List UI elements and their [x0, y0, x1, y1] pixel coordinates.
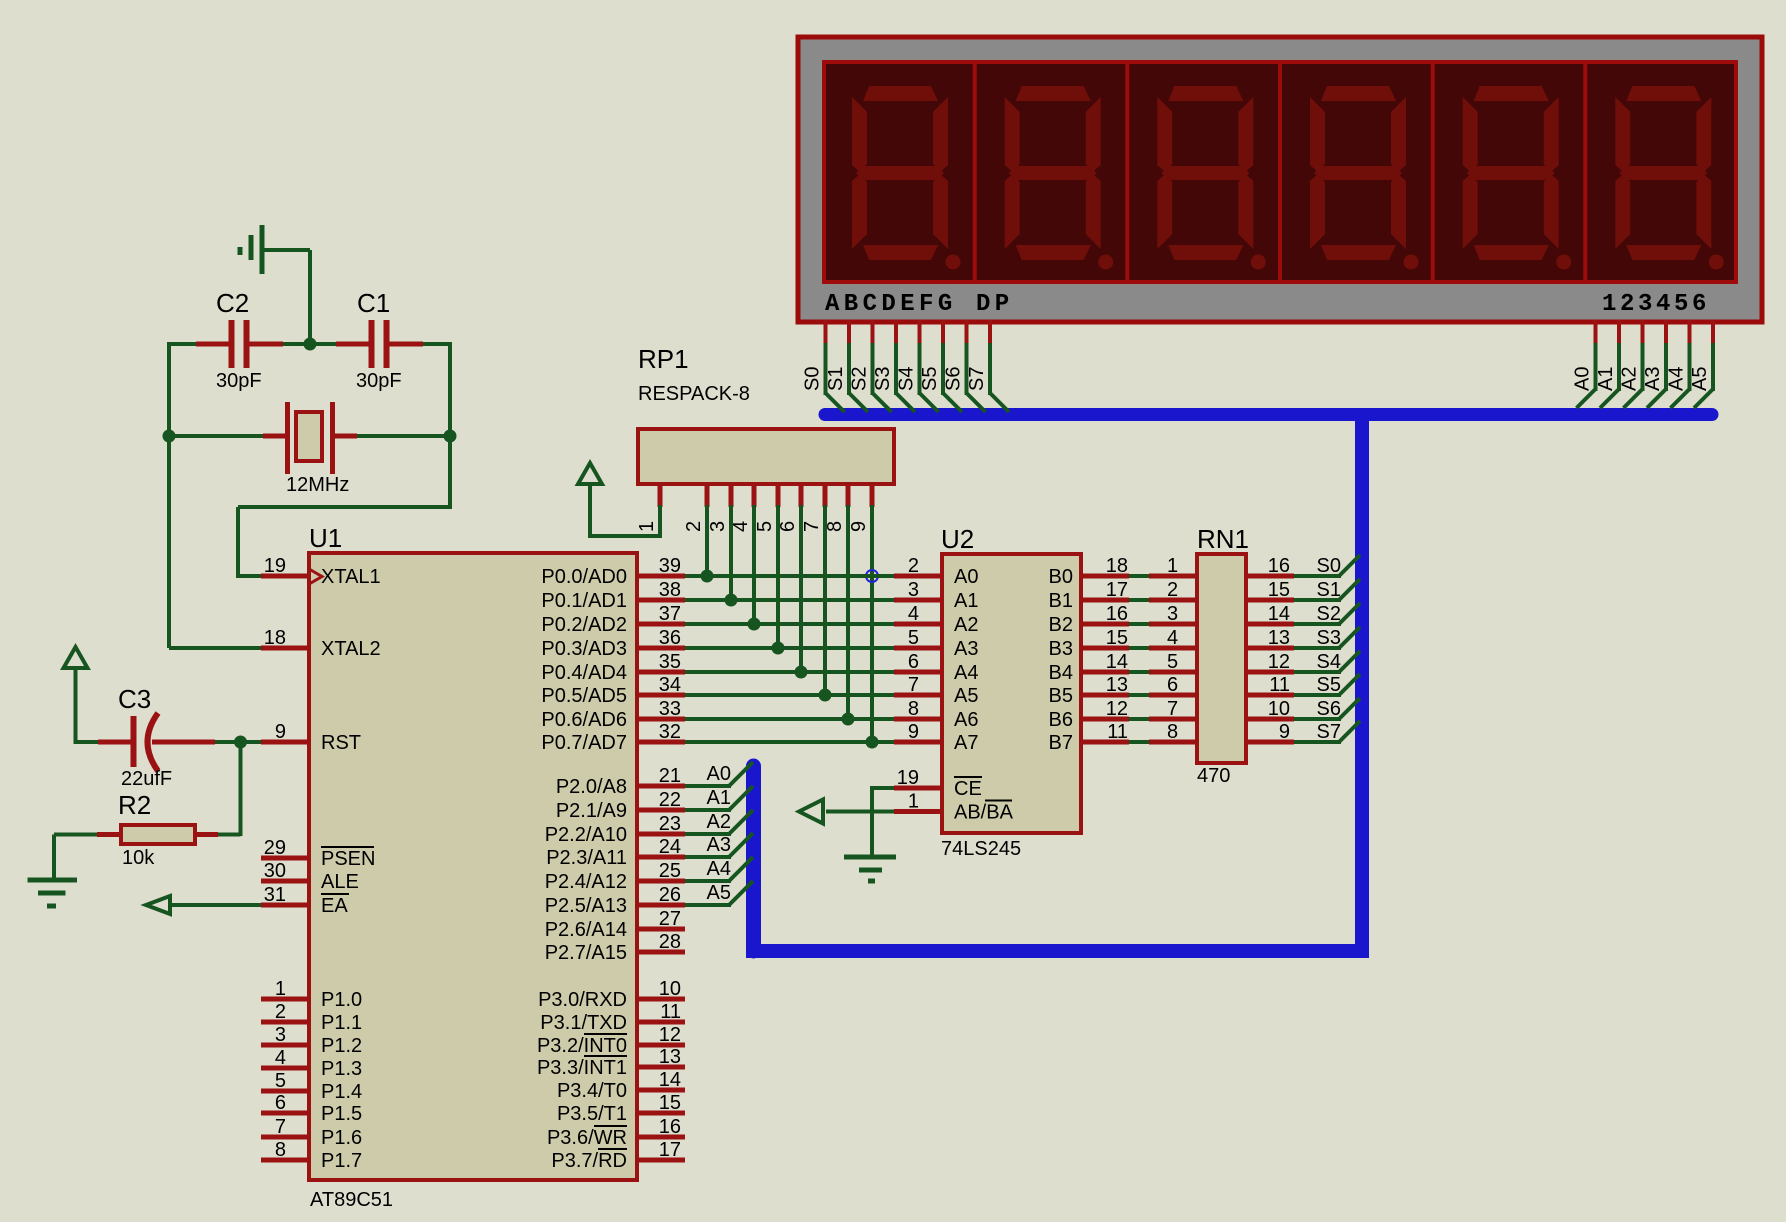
RP1 pin 3 wire to P0.1 — [707, 484, 738, 607]
svg-text:5: 5 — [908, 627, 919, 649]
svg-text:12: 12 — [1106, 698, 1128, 720]
svg-text:25: 25 — [659, 860, 681, 882]
bus segment top (S/A bus) — [825, 408, 1712, 421]
svg-text:A7: A7 — [954, 732, 978, 754]
U1 pin 6 (P1.5) stub — [261, 1092, 362, 1125]
svg-text:5: 5 — [275, 1070, 286, 1092]
wire power to C3 — [76, 740, 99, 744]
svg-text:1: 1 — [275, 978, 286, 1000]
RP1 pin 7 wire to P0.5 — [801, 484, 832, 702]
svg-text:A2: A2 — [1619, 367, 1641, 391]
U1 pin 35 (P0.4/AD4) stub — [541, 651, 685, 684]
svg-text:10: 10 — [659, 978, 681, 1000]
svg-text:7: 7 — [1167, 698, 1178, 720]
wire P2.1 to bus (A1) — [685, 786, 753, 810]
resistor pack RP1 RESPACK-8 — [638, 344, 894, 484]
svg-text:U2: U2 — [941, 524, 974, 554]
display digit 1 — [852, 86, 961, 270]
wire B1 U2 to RN1 — [1129, 598, 1149, 602]
display digit 6 — [1615, 86, 1724, 270]
U2 pin 14 (B4) stub — [1049, 651, 1129, 684]
svg-text:RST: RST — [321, 732, 361, 754]
svg-text:A3: A3 — [1642, 367, 1664, 391]
svg-text:7: 7 — [908, 674, 919, 696]
U1 pin 27 (P2.6/A14) stub — [545, 908, 685, 941]
U2 pin 4 (A2) stub — [894, 603, 978, 636]
RN1 pin 2 stub — [1149, 579, 1197, 601]
U2 pin 8 (A6) stub — [894, 698, 978, 731]
svg-text:C3: C3 — [118, 684, 151, 714]
U1 pin 10 (P3.0/RXD) stub — [538, 978, 685, 1011]
U2 pin 15 (B3) stub — [1049, 627, 1129, 660]
microcontroller U1 AT89C51 body — [309, 523, 637, 1211]
svg-text:P1.2: P1.2 — [321, 1035, 362, 1057]
U2 pin 13 (B5) stub — [1049, 674, 1129, 707]
wire B3 U2 to RN1 — [1129, 646, 1149, 650]
svg-text:12MHz: 12MHz — [286, 474, 349, 496]
U1 pin 19 (XTAL1) stub — [261, 555, 381, 588]
svg-text:B6: B6 — [1049, 709, 1073, 731]
svg-text:B5: B5 — [1049, 685, 1073, 707]
wire S7 RN1 to bus — [1294, 721, 1360, 743]
U1 pin 21 (P2.0/A8) stub — [556, 765, 685, 798]
svg-text:29: 29 — [264, 837, 286, 859]
display digit pin wire A0 — [1572, 320, 1596, 408]
svg-text:S6: S6 — [943, 367, 965, 391]
wire AB/BA with arrow — [799, 800, 894, 824]
svg-text:17: 17 — [1106, 579, 1128, 601]
svg-text:2: 2 — [275, 1001, 286, 1023]
svg-text:U1: U1 — [309, 523, 342, 553]
U1 pin 36 (P0.3/AD3) stub — [541, 627, 685, 660]
svg-text:1: 1 — [908, 791, 919, 813]
svg-text:18: 18 — [1106, 555, 1128, 577]
svg-text:P2.1/A9: P2.1/A9 — [556, 800, 627, 822]
RN1 pin 14 stub — [1246, 603, 1294, 625]
U1 pin 39 (P0.0/AD0) stub — [541, 555, 685, 588]
svg-text:P2.0/A8: P2.0/A8 — [556, 776, 627, 798]
svg-text:39: 39 — [659, 555, 681, 577]
svg-text:P2.7/A15: P2.7/A15 — [545, 942, 627, 964]
svg-text:19: 19 — [897, 767, 919, 789]
svg-text:S5: S5 — [919, 367, 941, 391]
svg-text:A1: A1 — [707, 787, 731, 809]
wire P0.4 row — [685, 670, 894, 674]
wire P2.2 to bus (A2) — [685, 810, 753, 834]
RN1 pin 1 stub — [1149, 555, 1197, 577]
svg-text:12: 12 — [1268, 651, 1290, 673]
svg-text:S6: S6 — [1317, 698, 1341, 720]
svg-text:P0.7/AD7: P0.7/AD7 — [541, 732, 627, 754]
wire B0 U2 to RN1 — [1129, 574, 1149, 578]
RP1 pin 5 wire to P0.3 — [754, 484, 785, 655]
U2 pin 1 (AB/BA) — [894, 791, 1014, 824]
svg-text:16: 16 — [1106, 603, 1128, 625]
U2 pin 7 (A5) stub — [894, 674, 978, 707]
wire S1 RN1 to bus — [1294, 579, 1360, 601]
svg-text:5: 5 — [1167, 651, 1178, 673]
RN1 pin 7 stub — [1149, 698, 1197, 720]
wire C1 right loop — [238, 342, 450, 578]
svg-text:A5: A5 — [707, 882, 731, 904]
svg-text:A6: A6 — [954, 709, 978, 731]
display digit pin wire A3 — [1642, 320, 1666, 408]
svg-text:12: 12 — [659, 1024, 681, 1046]
svg-text:P3.6/WR: P3.6/WR — [547, 1127, 627, 1149]
wire S5 RN1 to bus — [1294, 674, 1360, 696]
svg-text:B0: B0 — [1049, 566, 1073, 588]
U2 pin 9 (A7) stub — [894, 721, 978, 754]
svg-text:P3.2/INT0: P3.2/INT0 — [537, 1035, 627, 1057]
display digit pin wire A2 — [1619, 320, 1643, 408]
svg-text:4: 4 — [908, 603, 919, 625]
wire P0.5 row — [685, 693, 894, 697]
wire S0 RN1 to bus — [1294, 555, 1360, 577]
svg-text:28: 28 — [659, 931, 681, 953]
svg-text:8: 8 — [908, 698, 919, 720]
U1 pin 24 (P2.3/A11) stub — [546, 836, 685, 869]
node crystal left — [163, 430, 176, 443]
svg-text:P1.4: P1.4 — [321, 1081, 362, 1103]
svg-text:470: 470 — [1197, 765, 1230, 787]
svg-text:P1.3: P1.3 — [321, 1058, 362, 1080]
wire S4 RN1 to bus — [1294, 651, 1360, 673]
bus vertical trunk right — [1355, 414, 1369, 958]
U1 XTAL1 clock marker — [309, 569, 322, 584]
display digit 4 — [1310, 86, 1419, 270]
svg-text:30pF: 30pF — [216, 370, 262, 392]
svg-text:38: 38 — [659, 579, 681, 601]
svg-text:9: 9 — [848, 521, 870, 532]
node RST junction — [234, 736, 247, 749]
U2 pin 5 (A3) stub — [894, 627, 978, 660]
wire S3 RN1 to bus — [1294, 627, 1360, 649]
display segment pin wire S5 — [919, 320, 962, 412]
svg-text:74LS245: 74LS245 — [941, 838, 1021, 860]
svg-text:13: 13 — [659, 1046, 681, 1068]
svg-text:P3.3/INT1: P3.3/INT1 — [537, 1057, 627, 1079]
no-connection marker (blue circle) — [866, 570, 878, 582]
resistor network RN1 470 body — [1197, 524, 1249, 787]
wire P0.6 row — [685, 717, 894, 721]
svg-text:S2: S2 — [1317, 603, 1341, 625]
svg-text:B1: B1 — [1049, 590, 1073, 612]
RP1 pin 8 wire to P0.6 — [824, 484, 855, 726]
svg-text:P2.5/A13: P2.5/A13 — [545, 895, 627, 917]
svg-text:S3: S3 — [1317, 627, 1341, 649]
svg-text:13: 13 — [1106, 674, 1128, 696]
U2 pin 6 (A4) stub — [894, 651, 978, 684]
svg-text:30pF: 30pF — [356, 370, 402, 392]
U1 pin 8 (P1.7) stub — [261, 1139, 362, 1172]
ground (below R2) — [28, 880, 78, 906]
svg-text:2: 2 — [683, 521, 705, 532]
svg-text:A3: A3 — [954, 638, 978, 660]
U1 pin 15 (P3.5/T1) stub — [557, 1092, 685, 1125]
svg-text:S1: S1 — [825, 367, 847, 391]
svg-text:11: 11 — [1107, 721, 1128, 743]
svg-text:A3: A3 — [707, 834, 731, 856]
U1 pin 32 (P0.7/AD7) stub — [541, 721, 685, 754]
svg-text:3: 3 — [1167, 603, 1178, 625]
RP1 pin 4 wire to P0.2 — [730, 484, 761, 631]
U2 pin 17 (B1) stub — [1049, 579, 1129, 612]
svg-text:R2: R2 — [118, 790, 151, 820]
svg-text:4: 4 — [730, 521, 752, 532]
svg-text:11: 11 — [660, 1001, 681, 1023]
svg-text:2: 2 — [1167, 579, 1178, 601]
display segment pin wire S7 — [966, 320, 1009, 412]
capacitor C3 22ufF — [98, 684, 215, 790]
U1 pin 17 (P3.7/RD) stub — [551, 1139, 685, 1172]
svg-text:S0: S0 — [1317, 555, 1341, 577]
svg-text:B4: B4 — [1049, 662, 1073, 684]
U1 pin 22 (P2.1/A9) stub — [556, 789, 685, 822]
svg-text:P0.4/AD4: P0.4/AD4 — [541, 662, 627, 684]
U1 pin 34 (P0.5/AD5) stub — [541, 674, 685, 707]
svg-text:PSEN: PSEN — [321, 848, 375, 870]
svg-text:22: 22 — [659, 789, 681, 811]
U1 pin 3 (P1.2) stub — [261, 1024, 362, 1057]
svg-text:21: 21 — [659, 765, 681, 787]
U1 pin 13 (P3.3/INT1) stub — [537, 1046, 685, 1079]
U2 pin 2 (A0) stub — [894, 555, 978, 588]
svg-text:B3: B3 — [1049, 638, 1073, 660]
svg-text:S1: S1 — [1317, 579, 1341, 601]
RN1 pin 9 stub — [1246, 721, 1294, 743]
svg-text:36: 36 — [659, 627, 681, 649]
U1 pin 7 (P1.6) stub — [261, 1116, 362, 1149]
svg-text:S4: S4 — [1317, 651, 1341, 673]
svg-text:S7: S7 — [1317, 721, 1341, 743]
wire C2 left loop — [169, 342, 261, 648]
svg-text:9: 9 — [1279, 721, 1290, 743]
wire P0.2 row — [685, 622, 894, 626]
svg-text:A2: A2 — [707, 811, 731, 833]
svg-text:14: 14 — [1268, 603, 1290, 625]
svg-text:A5: A5 — [954, 685, 978, 707]
display segment pin wire S4 — [896, 320, 939, 412]
RN1 pin 3 stub — [1149, 603, 1197, 625]
svg-text:27: 27 — [659, 908, 681, 930]
wire crystal left — [169, 434, 263, 438]
svg-text:34: 34 — [659, 674, 681, 696]
capacitor C1 — [336, 288, 423, 392]
svg-text:3: 3 — [908, 579, 919, 601]
wire C3 to RST — [215, 740, 261, 744]
svg-text:P0.2/AD2: P0.2/AD2 — [541, 614, 627, 636]
svg-text:AB/BA: AB/BA — [954, 802, 1014, 824]
svg-text:6: 6 — [908, 651, 919, 673]
ground (below U2) — [844, 857, 896, 881]
wire B4 U2 to RN1 — [1129, 670, 1149, 674]
svg-text:P0.5/AD5: P0.5/AD5 — [541, 685, 627, 707]
svg-text:30: 30 — [264, 860, 286, 882]
node C2/C1 junction — [304, 338, 317, 351]
svg-text:6: 6 — [1167, 674, 1178, 696]
wire B7 U2 to RN1 — [1129, 740, 1149, 744]
U1 pin 4 (P1.3) stub — [261, 1047, 362, 1080]
svg-text:P1.7: P1.7 — [321, 1150, 362, 1172]
RN1 pin 15 stub — [1246, 579, 1294, 601]
svg-text:9: 9 — [275, 721, 286, 743]
power arrow (RP1 common) — [578, 463, 602, 538]
RN1 pin 11 stub — [1246, 674, 1294, 696]
U1 pin 31 (EA) stub — [261, 884, 349, 917]
svg-text:S5: S5 — [1317, 674, 1341, 696]
svg-text:P2.6/A14: P2.6/A14 — [545, 919, 627, 941]
svg-text:A4: A4 — [707, 858, 731, 880]
svg-text:P0.1/AD1: P0.1/AD1 — [541, 590, 627, 612]
svg-text:31: 31 — [264, 884, 286, 906]
display segment pin wire S2 — [849, 320, 892, 412]
wire P2.3 to bus (A3) — [685, 833, 753, 857]
svg-text:RESPACK-8: RESPACK-8 — [638, 383, 750, 405]
wire B5 U2 to RN1 — [1129, 693, 1149, 697]
wire RST node down to R2 — [218, 742, 241, 836]
svg-text:A0: A0 — [1572, 367, 1594, 391]
U1 pin 1 (P1.0) stub — [261, 978, 362, 1011]
svg-text:15: 15 — [1268, 579, 1290, 601]
svg-text:P0.6/AD6: P0.6/AD6 — [541, 709, 627, 731]
svg-text:P2.3/A11: P2.3/A11 — [546, 847, 627, 869]
svg-text:6: 6 — [777, 521, 799, 532]
U1 pin 12 (P3.2/INT0) stub — [537, 1024, 685, 1057]
svg-text:A4: A4 — [1666, 367, 1688, 391]
RN1 pin 13 stub — [1246, 627, 1294, 649]
wire ground to C2/C1 node — [262, 250, 310, 344]
RP1 pin 2 wire to P0.0 — [683, 484, 714, 583]
svg-text:14: 14 — [659, 1069, 681, 1091]
wire P0.3 row — [685, 646, 894, 650]
svg-text:P3.1/TXD: P3.1/TXD — [540, 1012, 627, 1034]
power arrow (RST pull-up) — [64, 647, 88, 744]
svg-text:35: 35 — [659, 651, 681, 673]
ground (top, near C2/C1) — [240, 225, 262, 274]
U1 pin 25 (P2.4/A12) stub — [545, 860, 685, 893]
U2 pin 19 (CE) — [894, 767, 982, 800]
svg-text:10: 10 — [1268, 698, 1290, 720]
svg-text:A1: A1 — [1595, 367, 1617, 391]
wire P2.5 to bus (A5) — [685, 881, 753, 905]
svg-text:19: 19 — [264, 555, 286, 577]
U2 pin 18 (B0) stub — [1049, 555, 1129, 588]
svg-text:15: 15 — [659, 1092, 681, 1114]
svg-text:23: 23 — [659, 813, 681, 835]
U1 pin 11 (P3.1/TXD) stub — [540, 1001, 685, 1034]
RN1 pin 8 stub — [1149, 721, 1197, 743]
RN1 pin 6 stub — [1149, 674, 1197, 696]
svg-text:XTAL1: XTAL1 — [321, 566, 381, 588]
svg-text:P1.1: P1.1 — [321, 1012, 362, 1034]
U1 pin 33 (P0.6/AD6) stub — [541, 698, 685, 731]
svg-text:7: 7 — [801, 521, 823, 532]
U1 pin 14 (P3.4/T0) stub — [557, 1069, 685, 1102]
svg-text:16: 16 — [1268, 555, 1290, 577]
svg-text:A0: A0 — [707, 763, 731, 785]
wire B2 U2 to RN1 — [1129, 622, 1149, 626]
wire P2.4 to bus (A4) — [685, 857, 753, 881]
svg-text:RP1: RP1 — [638, 344, 689, 374]
U2 pin 11 (B7) stub — [1049, 721, 1129, 754]
buffer U2 74LS245 body — [941, 524, 1081, 860]
svg-text:22ufF: 22ufF — [121, 768, 172, 790]
svg-text:8: 8 — [1167, 721, 1178, 743]
svg-text:S2: S2 — [849, 367, 871, 391]
svg-text:8: 8 — [275, 1139, 286, 1161]
display digit 3 — [1157, 86, 1266, 270]
U1 pin 16 (P3.6/WR) stub — [547, 1116, 685, 1149]
svg-text:24: 24 — [659, 836, 681, 858]
U1 pin 38 (P0.1/AD1) stub — [541, 579, 685, 612]
RN1 pin 16 stub — [1246, 555, 1294, 577]
U2 pin 12 (B6) stub — [1049, 698, 1129, 731]
display segment pin wire S0 — [802, 320, 845, 412]
display segment pin wire S3 — [872, 320, 915, 412]
svg-text:123456: 123456 — [1602, 291, 1710, 318]
svg-text:P0.3/AD3: P0.3/AD3 — [541, 638, 627, 660]
U1 pin 30 (ALE) stub — [261, 860, 359, 893]
svg-text:P2.2/A10: P2.2/A10 — [545, 824, 627, 846]
svg-text:7: 7 — [275, 1116, 286, 1138]
U1 pin 23 (P2.2/A10) stub — [545, 813, 685, 846]
wire S6 RN1 to bus — [1294, 698, 1360, 720]
svg-text:15: 15 — [1106, 627, 1128, 649]
svg-text:P1.5: P1.5 — [321, 1103, 362, 1125]
U1 pin 2 (P1.1) stub — [261, 1001, 362, 1034]
crystal X1 12MHz — [263, 402, 357, 496]
svg-text:16: 16 — [659, 1116, 681, 1138]
U1 pin 18 (XTAL2) stub — [261, 627, 381, 660]
U1 pin 29 (PSEN) stub — [261, 837, 375, 870]
display digit pin wire A4 — [1666, 320, 1690, 408]
display digit pin wire A5 — [1689, 320, 1713, 408]
svg-text:B7: B7 — [1049, 732, 1073, 754]
svg-text:EA: EA — [321, 895, 348, 917]
wire R2 to ground — [54, 835, 97, 881]
wire EA arrow — [146, 896, 261, 914]
svg-text:ALE: ALE — [321, 871, 359, 893]
svg-text:17: 17 — [659, 1139, 681, 1161]
svg-text:8: 8 — [824, 521, 846, 532]
svg-text:14: 14 — [1106, 651, 1128, 673]
svg-text:11: 11 — [1269, 674, 1290, 696]
svg-text:A1: A1 — [954, 590, 978, 612]
RP1 pin 6 wire to P0.4 — [777, 484, 808, 679]
svg-text:XTAL2: XTAL2 — [321, 638, 381, 660]
wire B6 U2 to RN1 — [1129, 717, 1149, 721]
svg-text:4: 4 — [1167, 627, 1178, 649]
svg-text:P3.7/RD: P3.7/RD — [551, 1150, 627, 1172]
svg-text:P1.6: P1.6 — [321, 1127, 362, 1149]
svg-text:32: 32 — [659, 721, 681, 743]
svg-text:A5: A5 — [1689, 367, 1711, 391]
svg-text:C2: C2 — [216, 288, 249, 318]
svg-text:33: 33 — [659, 698, 681, 720]
RP1 pin 9 wire to P0.7 — [848, 484, 879, 749]
wire P2.0 to bus (A0) — [685, 762, 753, 786]
U1 pin 5 (P1.4) stub — [261, 1070, 362, 1103]
U1 pin 26 (P2.5/A13) stub — [545, 884, 685, 917]
svg-text:A4: A4 — [954, 662, 978, 684]
svg-text:4: 4 — [275, 1047, 286, 1069]
svg-text:A2: A2 — [954, 614, 978, 636]
svg-text:P3.0/RXD: P3.0/RXD — [538, 989, 627, 1011]
svg-text:S4: S4 — [896, 367, 918, 391]
U2 pin 16 (B2) stub — [1049, 603, 1129, 636]
svg-text:3: 3 — [707, 521, 729, 532]
svg-text:9: 9 — [908, 721, 919, 743]
